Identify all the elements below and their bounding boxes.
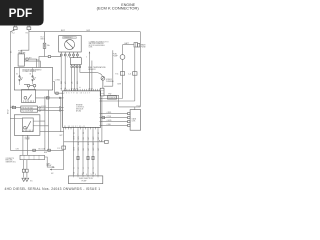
glow relay pin strip: [24, 130, 32, 132]
svg-text:SENSOR: SENSOR: [88, 69, 96, 71]
sensor box U1: [59, 36, 82, 52]
temp sensor pins: [71, 65, 81, 68]
svg-text:(ECM): (ECM): [76, 110, 81, 112]
svg-text:P-6: P-6: [115, 73, 118, 75]
wire fuse feed: [10, 106, 20, 108]
svg-text:PDF: PDF: [9, 6, 33, 20]
svg-text:C-6: C-6: [128, 73, 131, 75]
wire heater out 1: [24, 58, 36, 68]
svg-text:41: 41: [98, 132, 100, 134]
svg-text:5: 5: [93, 168, 95, 169]
wire glow relay out 2: [40, 90, 49, 150]
svg-text:P-4: P-4: [99, 140, 102, 142]
connector MAIN: [134, 43, 140, 47]
svg-text:L/W: L/W: [16, 148, 19, 150]
fuse E-4: [43, 32, 46, 49]
svg-text:5B: 5B: [93, 172, 95, 174]
svg-text:SCREW: SCREW: [106, 79, 112, 81]
relay sub box pin strip: [24, 100, 34, 102]
svg-text:L/B: L/B: [71, 82, 73, 84]
footer text: [5, 187, 101, 191]
ECM out wire K2: [77, 129, 79, 176]
relay contact stubs: [20, 68, 35, 91]
glow relay outer box: [14, 115, 40, 136]
svg-text:3: 3: [83, 168, 85, 169]
wire fuse2 to ECM: [38, 110, 63, 112]
relay box: [14, 68, 52, 91]
svg-text:B/W: B/W: [118, 83, 122, 85]
wire sub box to ECM: [36, 97, 63, 99]
wire temp pin2: [73, 67, 75, 90]
connector P-2: [62, 146, 66, 149]
ECM out wire K1: [73, 129, 75, 176]
terminal block bar: [20, 155, 45, 159]
ECM top pin band: [63, 89, 101, 91]
ECM out wire K3: [82, 129, 84, 176]
wire temp pin4 to screw terminal: [80, 67, 103, 76]
fuel injection pump box: [68, 176, 102, 184]
svg-text:B/W: B/W: [44, 152, 48, 154]
svg-text:PUMP: PUMP: [82, 180, 88, 182]
svg-text:4 SEL: 4 SEL: [107, 124, 111, 126]
svg-text:1 3 5 7 9 11 13 15 17: 1 3 5 7 9 11 13 15 17: [64, 92, 91, 94]
svg-text:4 L/W 1: 4 L/W 1: [44, 96, 50, 98]
wire right border: [139, 32, 141, 107]
fuel heater box: [18, 54, 24, 66]
wire temp pin1: [71, 67, 73, 90]
wire data link 4: [101, 124, 128, 126]
svg-text:35: 35: [83, 132, 85, 134]
svg-text:H-7: H-7: [26, 33, 29, 35]
svg-text:CONNECTS DIRECTLY TO: CONNECTS DIRECTLY TO: [89, 41, 109, 43]
svg-text:E2: E2: [51, 173, 53, 175]
E1 relay drop 2: [27, 135, 29, 155]
svg-text:B/W: B/W: [73, 136, 75, 140]
connector top-left B: [27, 26, 31, 32]
wire data link 2: [101, 117, 128, 119]
svg-text:1 2 3 4 5: 1 2 3 4 5: [61, 57, 90, 59]
wire heater out 2: [24, 61, 40, 67]
ECM bottom pin band: [63, 127, 101, 129]
glow relay inner box: [14, 118, 40, 132]
wire temp pin3: [76, 67, 78, 90]
svg-text:BK/W: BK/W: [8, 109, 10, 114]
ECM end box: [100, 88, 104, 96]
wire top bus: [29, 31, 140, 33]
wire bottom bus: [10, 149, 63, 151]
wire fuel pump down: [122, 59, 124, 71]
svg-text:PUMP: PUMP: [113, 56, 119, 58]
svg-text:H-4: H-4: [12, 33, 15, 35]
sensor symbol circle: [65, 40, 75, 50]
wire E1 ground 2: [25, 160, 29, 182]
title text: [97, 3, 140, 11]
wire data link 1: [101, 113, 128, 115]
svg-text:FUSE: FUSE: [141, 46, 147, 48]
svg-text:B/W: B/W: [73, 147, 75, 151]
relay coils: [24, 84, 36, 87]
svg-text:P-2: P-2: [57, 148, 60, 150]
E1 relay drop 1: [22, 135, 24, 155]
svg-text:1 2 3 4 5 6: 1 2 3 4 5 6: [73, 174, 98, 176]
sensor pins: [60, 52, 78, 56]
wire fuel pump feed: [123, 45, 135, 55]
wire data link 3: [101, 121, 128, 123]
svg-text:4 GND: 4 GND: [107, 120, 113, 122]
data link pins: [128, 113, 131, 127]
PDF badge: [0, 0, 44, 26]
connector E-4 to sensor: [48, 56, 61, 58]
wire relay cond out: [53, 82, 63, 95]
svg-text:POWER RELAYS: POWER RELAYS: [23, 70, 37, 73]
svg-text:87: 87: [35, 77, 37, 79]
fuel temperature sensor box: [70, 58, 81, 65]
wire terminal bar out: [45, 157, 55, 168]
svg-text:30: 30: [22, 77, 24, 79]
wire battery terminal arrow: [89, 51, 90, 91]
svg-text:B/L: B/L: [83, 148, 85, 151]
svg-text:4HD DIESEL SERIAL Nos. 24043 O: 4HD DIESEL SERIAL Nos. 24043 ONWARDS - I…: [5, 187, 101, 191]
svg-text:P/W: P/W: [108, 94, 112, 96]
connector P-6: [120, 72, 124, 76]
svg-text:G/B: G/B: [77, 81, 79, 84]
svg-text:(ECM K CONNECTOR): (ECM K CONNECTOR): [97, 6, 140, 11]
wire aux left drop: [60, 98, 62, 132]
data link connector box: [130, 110, 141, 131]
wire aux sensor: [91, 61, 93, 91]
ECM right edge pins: [99, 99, 101, 126]
screw terminal: [101, 76, 105, 88]
connector top-left: [10, 26, 17, 32]
wire fuse1 to ECM: [38, 107, 63, 109]
wire sensor shield: [104, 50, 113, 86]
ECM out wire K6: [97, 129, 99, 176]
relay sub box: [22, 90, 36, 103]
svg-text:31: 31: [73, 132, 75, 134]
wire P-6 to ECM: [101, 75, 123, 98]
svg-text:B/L: B/L: [83, 137, 85, 140]
wire left border: [9, 32, 11, 151]
wire glow relay feed: [10, 117, 14, 119]
wire C-6 drop: [134, 47, 136, 71]
wire sensor pin2: [64, 56, 66, 91]
svg-text:4: 4: [88, 168, 90, 169]
svg-text:L/W: L/W: [11, 106, 14, 108]
svg-text:CONNECTS: CONNECTS: [6, 158, 14, 160]
ECM out wire K4: [87, 129, 89, 176]
relay contact 2: [32, 75, 35, 82]
wire glow relay out 3: [40, 131, 64, 133]
svg-text:HEATER: HEATER: [18, 51, 26, 54]
ECM out wire K5: [92, 129, 94, 176]
svg-text:3B: 3B: [83, 172, 85, 174]
wire sensor pins to temp sensor: [70, 56, 78, 58]
label box MOhm: [108, 96, 117, 99]
label box fuse 2: [21, 109, 38, 112]
label box fuse 1: [21, 106, 38, 109]
ECM box: [63, 91, 101, 128]
svg-text:EHB LINK: EHB LINK: [6, 160, 13, 162]
wire E1 ground 1: [22, 160, 26, 182]
svg-text:P-14: P-14: [137, 105, 140, 107]
wire E2 ground: [50, 149, 64, 170]
relay contact 1: [19, 75, 22, 82]
svg-text:86: 86: [30, 74, 32, 76]
wire heater feed: [21, 32, 29, 54]
wire P-4 branch: [64, 141, 105, 143]
ECM left edge pins: [61, 93, 63, 110]
wire ECM ground drop: [63, 127, 65, 146]
svg-text:NOISE FILT: NOISE FILT: [108, 98, 117, 100]
wire E-4 drop: [39, 48, 48, 67]
svg-text:4 B/Y 1: 4 B/Y 1: [41, 106, 46, 108]
wire glow relay out 1: [40, 98, 45, 150]
svg-text:GLOW: GLOW: [25, 137, 30, 139]
svg-text:B/W: B/W: [87, 30, 91, 32]
svg-text:STEERING P.: STEERING P.: [63, 37, 73, 39]
wire MOhm: [104, 95, 140, 109]
svg-text:2: 2: [78, 168, 80, 169]
svg-text:ENG: ENG: [41, 39, 45, 41]
wire sensor pin1: [60, 56, 62, 91]
svg-text:E1: E1: [30, 180, 32, 182]
svg-text:COND: COND: [55, 80, 61, 82]
svg-text:1B: 1B: [73, 172, 75, 174]
svg-text:85: 85: [16, 74, 18, 76]
wire entry ticks ECM top: [60, 87, 92, 88]
svg-text:31 33 35 37 39 41: 31 33 35 37 39 41: [64, 126, 85, 128]
svg-text:1: 1: [73, 168, 75, 169]
fuel pump motor: [120, 55, 125, 60]
connector C-6: [133, 72, 137, 76]
svg-text:4 B/R 1: 4 B/R 1: [41, 109, 46, 111]
wire C-6 to ECM: [101, 75, 135, 101]
wire strip end drop: [101, 96, 103, 142]
connector P-4: [105, 140, 109, 143]
